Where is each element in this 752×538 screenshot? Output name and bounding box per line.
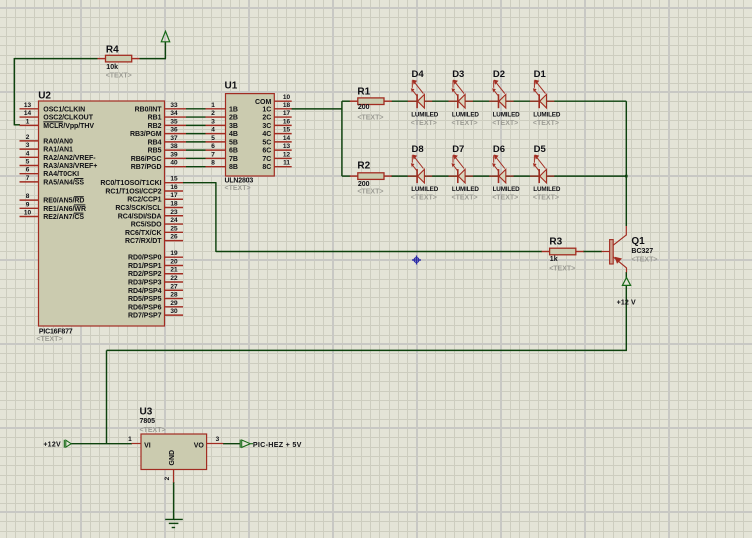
svg-text:3C: 3C [262,123,271,130]
svg-text:15: 15 [283,127,291,134]
svg-text:D5: D5 [534,144,547,155]
svg-text:7: 7 [211,151,215,158]
svg-text:21: 21 [170,267,178,274]
svg-text:RC6/TX/CK: RC6/TX/CK [125,230,162,237]
svg-text:<TEXT>: <TEXT> [106,72,132,79]
svg-text:U2: U2 [38,91,51,102]
svg-text:5: 5 [26,159,30,166]
svg-text:RD6/PSP6: RD6/PSP6 [128,304,162,311]
svg-text:34: 34 [170,110,178,117]
svg-text:PIC16F877: PIC16F877 [39,328,73,335]
svg-text:<TEXT>: <TEXT> [492,195,518,202]
svg-text:RA1/AN1: RA1/AN1 [43,147,73,154]
svg-text:U1: U1 [225,81,238,92]
svg-text:18: 18 [283,102,291,109]
svg-text:24: 24 [170,217,178,224]
svg-text:D3: D3 [452,69,464,80]
svg-text:8B: 8B [229,164,238,171]
svg-text:RC7/RX/DT: RC7/RX/DT [125,238,162,245]
svg-text:6C: 6C [262,148,271,155]
svg-text:3: 3 [216,436,220,443]
svg-text:RB6/PGC: RB6/PGC [131,156,162,163]
svg-text:38: 38 [170,143,178,150]
svg-text:37: 37 [170,135,178,142]
svg-text:<TEXT>: <TEXT> [357,189,383,196]
svg-text:<TEXT>: <TEXT> [411,120,437,127]
svg-text:7C: 7C [262,156,271,163]
svg-text:<TEXT>: <TEXT> [533,195,559,202]
svg-text:RB1: RB1 [148,115,162,122]
svg-text:27: 27 [170,283,178,290]
svg-text:PIC-HEZ + 5V: PIC-HEZ + 5V [253,440,302,449]
svg-text:8C: 8C [262,164,271,171]
svg-text:<TEXT>: <TEXT> [357,115,383,122]
svg-text:3: 3 [26,142,30,149]
svg-text:OSC1/CLKIN: OSC1/CLKIN [43,106,85,113]
svg-text:7: 7 [26,175,30,182]
svg-text:16: 16 [283,118,291,125]
svg-text:10: 10 [283,94,291,101]
svg-text:ULN2803: ULN2803 [225,178,254,185]
svg-text:3: 3 [211,118,215,125]
svg-text:1B: 1B [229,106,238,113]
svg-text:D6: D6 [493,144,505,155]
svg-text:6: 6 [211,143,215,150]
svg-text:2B: 2B [229,115,238,122]
svg-text:1C: 1C [262,106,271,113]
svg-text:LUMILED: LUMILED [452,186,480,193]
svg-text:RD5/PSP5: RD5/PSP5 [128,296,162,303]
svg-text:29: 29 [170,300,178,307]
svg-text:14: 14 [24,110,32,117]
svg-text:7B: 7B [229,156,238,163]
svg-text:20: 20 [170,258,178,265]
svg-text:RD7/PSP7: RD7/PSP7 [128,313,162,320]
svg-text:33: 33 [170,102,178,109]
svg-text:LUMILED: LUMILED [411,186,439,193]
svg-text:RE0/AN5/RD: RE0/AN5/RD [43,198,84,205]
svg-text:200: 200 [358,104,370,111]
svg-text:<TEXT>: <TEXT> [452,195,478,202]
svg-text:RD3/PSP3: RD3/PSP3 [128,280,162,287]
svg-text:+12 V: +12 V [617,300,636,307]
svg-text:RE2/AN7/CS: RE2/AN7/CS [43,214,84,221]
svg-text:4: 4 [26,150,30,157]
svg-text:200: 200 [358,181,370,188]
svg-text:4: 4 [211,127,215,134]
svg-text:<TEXT>: <TEXT> [36,336,62,343]
svg-text:15: 15 [170,176,178,183]
svg-text:12: 12 [283,151,291,158]
svg-text:D8: D8 [412,144,424,155]
svg-text:RB7/PGD: RB7/PGD [131,164,162,171]
svg-text:10k: 10k [106,64,118,71]
svg-text:R2: R2 [357,161,370,172]
svg-text:LUMILED: LUMILED [493,111,521,118]
svg-text:D2: D2 [493,69,505,80]
svg-text:<TEXT>: <TEXT> [533,120,559,127]
svg-text:36: 36 [170,127,178,134]
svg-text:RD1/PSP1: RD1/PSP1 [128,263,162,270]
svg-text:4B: 4B [229,131,238,138]
svg-text:RB0/INT: RB0/INT [135,106,163,113]
svg-text:23: 23 [170,209,178,216]
svg-text:11: 11 [283,160,290,167]
svg-text:RB3/PGM: RB3/PGM [130,131,162,138]
svg-text:26: 26 [170,234,178,241]
svg-text:2: 2 [211,110,215,117]
svg-text:D7: D7 [452,144,464,155]
svg-text:Q1: Q1 [631,236,645,247]
svg-text:7805: 7805 [140,418,156,425]
svg-text:10: 10 [24,210,32,217]
svg-text:28: 28 [170,292,178,299]
svg-text:OSC2/CLKOUT: OSC2/CLKOUT [43,115,93,122]
svg-text:39: 39 [170,151,178,158]
svg-text:RC0/T1OSO/T1CKI: RC0/T1OSO/T1CKI [100,180,161,187]
svg-text:R3: R3 [549,237,562,248]
svg-text:LUMILED: LUMILED [411,111,439,118]
svg-text:BC327: BC327 [631,248,653,255]
svg-text:19: 19 [170,250,178,257]
svg-text:5: 5 [211,135,215,142]
svg-text:RA4/T0CKI: RA4/T0CKI [43,171,79,178]
svg-text:VI: VI [144,442,151,449]
svg-text:1k: 1k [550,256,558,263]
svg-text:5C: 5C [262,139,271,146]
svg-text:3B: 3B [229,123,238,130]
svg-text:RB2: RB2 [148,123,162,130]
svg-text:17: 17 [170,192,178,199]
svg-text:1: 1 [211,102,215,109]
svg-text:4C: 4C [262,131,271,138]
svg-text:LUMILED: LUMILED [493,186,521,193]
svg-text:LUMILED: LUMILED [533,111,561,118]
svg-text:18: 18 [170,201,178,208]
svg-text:RA3/AN3/VREF+: RA3/AN3/VREF+ [43,163,97,170]
svg-text:RD2/PSP2: RD2/PSP2 [128,271,162,278]
svg-text:8: 8 [26,193,30,200]
svg-text:30: 30 [170,308,178,315]
svg-text:RC4/SDI/SDA: RC4/SDI/SDA [118,213,162,220]
svg-text:22: 22 [170,275,178,282]
svg-text:RB4: RB4 [148,139,162,146]
svg-text:+12V: +12V [43,442,61,449]
svg-text:<TEXT>: <TEXT> [225,185,251,192]
svg-text:R1: R1 [357,87,370,98]
svg-text:<TEXT>: <TEXT> [549,265,575,272]
svg-text:<TEXT>: <TEXT> [452,120,478,127]
svg-text:VO: VO [194,442,205,449]
svg-text:COM: COM [255,99,272,106]
svg-text:<TEXT>: <TEXT> [631,256,657,263]
svg-text:6: 6 [26,167,30,174]
svg-text:35: 35 [170,118,178,125]
svg-text:RA2/AN2/VREF-: RA2/AN2/VREF- [43,155,96,162]
svg-text:13: 13 [283,143,291,150]
svg-text:40: 40 [170,160,178,167]
svg-text:<TEXT>: <TEXT> [140,427,166,434]
svg-text:R4: R4 [106,45,119,56]
svg-text:D1: D1 [534,69,547,80]
svg-text:2: 2 [26,134,30,141]
svg-text:17: 17 [283,110,291,117]
svg-text:2: 2 [164,476,171,480]
svg-text:13: 13 [24,102,32,109]
svg-text:RD0/PSP0: RD0/PSP0 [128,255,162,262]
svg-text:1: 1 [26,118,30,125]
svg-text:1: 1 [128,436,132,443]
svg-text:LUMILED: LUMILED [533,186,561,193]
svg-text:<TEXT>: <TEXT> [411,195,437,202]
svg-text:14: 14 [283,135,291,142]
svg-text:RB5: RB5 [148,148,162,155]
svg-text:5B: 5B [229,139,238,146]
svg-text:RE1/AN6/WR: RE1/AN6/WR [43,206,86,213]
svg-text:RC1/T1OSI/CCP2: RC1/T1OSI/CCP2 [105,188,161,195]
svg-text:RC2/CCP1: RC2/CCP1 [127,197,161,204]
svg-text:2C: 2C [262,115,271,122]
svg-text:9: 9 [26,201,30,208]
svg-text:RC3/SCK/SCL: RC3/SCK/SCL [115,205,162,212]
svg-text:RC5/SDO: RC5/SDO [131,222,162,229]
svg-text:D4: D4 [412,69,425,80]
svg-text:16: 16 [170,184,178,191]
svg-text:25: 25 [170,225,178,232]
svg-text:RA0/AN0: RA0/AN0 [43,138,73,145]
svg-text:GND: GND [169,450,176,466]
svg-text:LUMILED: LUMILED [452,111,480,118]
svg-text:MCLR/Vpp/THV: MCLR/Vpp/THV [43,123,94,130]
svg-text:RD4/PSP4: RD4/PSP4 [128,288,162,295]
svg-text:<TEXT>: <TEXT> [492,120,518,127]
svg-text:6B: 6B [229,148,238,155]
svg-text:8: 8 [211,160,215,167]
svg-text:RA5/AN4/SS: RA5/AN4/SS [43,179,84,186]
svg-text:U3: U3 [140,406,153,417]
